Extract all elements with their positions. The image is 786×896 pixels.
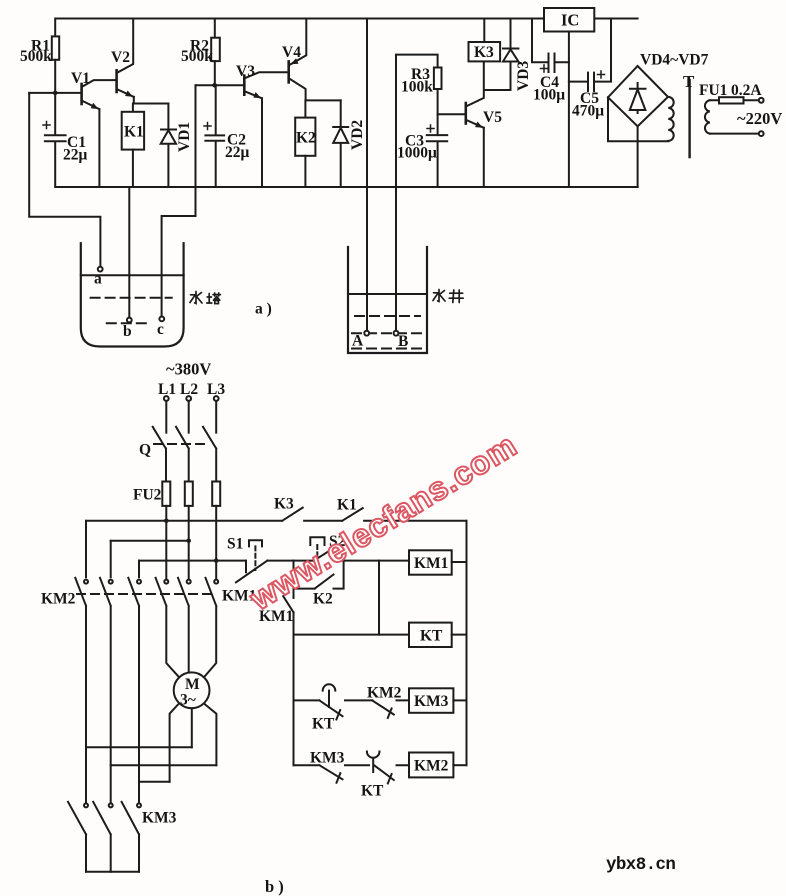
resistor R2 xyxy=(211,19,220,86)
label KM1 main xyxy=(222,588,256,605)
terminal L3 xyxy=(214,396,219,401)
label KM3 NC contact xyxy=(310,750,345,767)
switch Q pole 3 xyxy=(203,401,216,482)
wire KT branch xyxy=(378,561,380,635)
svg-text:3~: 3~ xyxy=(180,692,196,709)
contact K1 (feed line) xyxy=(342,508,466,521)
water tower tank xyxy=(81,243,184,346)
AC terminal top xyxy=(759,98,764,103)
transformer T primary winding xyxy=(668,97,674,141)
svg-text:KM3: KM3 xyxy=(142,810,177,827)
label R1 value xyxy=(20,38,52,66)
svg-text:500k: 500k xyxy=(181,48,213,65)
svg-text:V1: V1 xyxy=(71,70,90,87)
node 1 (R1/C1/V1 base) xyxy=(29,91,81,96)
transformer T core xyxy=(688,80,690,157)
wire secondary bottom xyxy=(710,133,759,135)
svg-text:L1: L1 xyxy=(158,381,176,398)
svg-text:FU1: FU1 xyxy=(699,82,727,99)
svg-text:KT: KT xyxy=(361,783,384,800)
label C3 value xyxy=(397,133,437,162)
electrode b xyxy=(127,318,132,323)
svg-text:100k: 100k xyxy=(401,79,433,96)
svg-text:b: b xyxy=(123,323,132,340)
svg-text:K2: K2 xyxy=(296,130,316,147)
label electrode B xyxy=(398,333,408,350)
pushbutton S1 (stop) xyxy=(236,540,267,582)
water well dashed level 2 xyxy=(352,332,423,334)
svg-text:VD2: VD2 xyxy=(349,120,366,150)
svg-text:0.2A: 0.2A xyxy=(731,82,762,99)
svg-text:K3: K3 xyxy=(274,496,294,513)
relay coil K3 xyxy=(469,19,501,62)
label V2 xyxy=(111,49,130,66)
transistor V3 xyxy=(244,72,288,187)
capacitor C3 xyxy=(427,125,447,187)
contactor KM1 main pole 2 xyxy=(178,578,191,673)
svg-text:L2: L2 xyxy=(180,381,198,398)
label FU1 0.2A xyxy=(699,82,762,99)
label b) xyxy=(265,877,284,896)
relay coil K2 xyxy=(295,100,315,187)
svg-text:KM3: KM3 xyxy=(414,693,449,710)
label KT contact row2 xyxy=(361,783,384,800)
label V4 xyxy=(282,44,301,61)
label KM2 main xyxy=(41,591,76,608)
right rail xyxy=(466,521,468,765)
svg-text:KM2: KM2 xyxy=(367,685,402,702)
contactor KM3 pole 2 xyxy=(93,802,113,872)
transformer T secondary winding xyxy=(705,100,710,133)
watermark ybx8.cn xyxy=(606,855,675,875)
terminal L1 xyxy=(164,396,169,401)
svg-text:B: B xyxy=(398,333,408,350)
svg-text:K1: K1 xyxy=(337,497,357,514)
svg-text:VD1: VD1 xyxy=(176,122,193,152)
contact KM2 NC (row KM3) xyxy=(372,700,409,718)
label VD4~VD7 xyxy=(640,52,709,69)
contact KT delayed NC (row KM2) xyxy=(367,752,409,784)
label a) xyxy=(255,301,272,318)
label S2 xyxy=(329,533,346,550)
water tower dashed level 2 xyxy=(107,322,146,324)
svg-text:KM2: KM2 xyxy=(41,591,76,608)
transistor V1 xyxy=(82,80,115,187)
bridge rectifier VD4~VD7 xyxy=(608,66,668,187)
contact KT delayed NC (row KM3) xyxy=(294,684,373,719)
wire well electrode B riser / R3 branch left xyxy=(396,55,438,331)
svg-text:FU2: FU2 xyxy=(133,487,162,504)
wire H1 motor to KM2 pole1 xyxy=(86,746,192,748)
svg-text:KT: KT xyxy=(420,628,443,645)
contact KM3 NC (row KM2) xyxy=(294,765,370,783)
water well dashed level 1 xyxy=(355,315,420,317)
contactor KM1 main pole 1 xyxy=(156,578,179,677)
switch Q linkage dashes xyxy=(154,443,209,445)
svg-text:b ): b ) xyxy=(265,877,284,896)
fuse FU2 pole 1 xyxy=(162,482,170,580)
watermark www.elecfans.com xyxy=(243,427,523,618)
wire top supply rail xyxy=(55,19,637,37)
label C5 value xyxy=(572,90,604,120)
svg-text:~220V: ~220V xyxy=(737,109,782,128)
resistor R1 xyxy=(52,36,59,93)
wire control feed line xyxy=(86,520,282,522)
label CJK 水井 (water well) xyxy=(433,290,463,303)
water tower water line xyxy=(81,274,184,276)
label KM1 self-hold xyxy=(259,608,293,625)
motor lead bottom-right xyxy=(205,704,217,765)
terminal L2 xyxy=(186,396,191,401)
fuse FU1 xyxy=(710,97,759,103)
svg-text:a ): a ) xyxy=(255,301,272,318)
label VD3 xyxy=(515,61,532,91)
electrode A xyxy=(364,331,369,336)
label K2 xyxy=(296,130,316,147)
label C1 value xyxy=(63,134,88,164)
label T xyxy=(683,72,695,91)
contactor KM2 main pole 3 xyxy=(128,561,141,804)
relay coil K1 xyxy=(122,104,144,188)
svg-text:500k: 500k xyxy=(20,48,52,65)
label KT coil xyxy=(420,628,443,645)
label L3 xyxy=(207,381,225,398)
label VD2 xyxy=(349,120,366,150)
capacitor C4 xyxy=(532,19,569,73)
svg-text:V2: V2 xyxy=(111,49,130,66)
relay coil KM1 xyxy=(409,550,467,574)
label KM1 coil xyxy=(414,555,448,572)
label KM3 coil xyxy=(414,693,449,710)
wire well electrode A riser xyxy=(366,19,368,331)
capacitor C2 xyxy=(204,85,224,187)
resistor R3 xyxy=(434,68,442,136)
label KT contact row1 xyxy=(312,716,335,733)
contactor KM3 pole 1 xyxy=(68,802,88,872)
label L1 xyxy=(158,381,176,398)
label electrode c xyxy=(157,321,164,338)
diode VD3 xyxy=(503,19,518,91)
svg-text:K3: K3 xyxy=(474,44,494,61)
motor lead bottom-center xyxy=(191,708,193,747)
wire V4 output row xyxy=(306,99,341,101)
wire K3/VD3 to V5 collector xyxy=(484,89,510,91)
wire V5 base xyxy=(438,113,466,115)
electrode c xyxy=(159,317,164,322)
label R3 value xyxy=(401,66,433,96)
contactor KM1 main pole 3 xyxy=(205,578,219,677)
IC box U1 xyxy=(544,8,594,187)
svg-text:ybx8.cn: ybx8.cn xyxy=(606,855,675,875)
svg-text:VD3: VD3 xyxy=(515,61,532,91)
svg-text:V4: V4 xyxy=(282,44,301,61)
svg-text:Q: Q xyxy=(139,442,151,459)
pushbutton S2 (start) xyxy=(310,537,409,560)
fuse FU2 pole 3 xyxy=(212,482,220,580)
label V5 xyxy=(483,109,502,126)
wire V2 emitter to VD1 xyxy=(134,103,169,105)
label Q xyxy=(139,442,151,459)
fuse FU2 pole 2 xyxy=(185,482,193,580)
label L2 xyxy=(180,381,198,398)
label KM2 coil xyxy=(414,758,449,775)
label C2 value xyxy=(225,132,250,162)
switch Q pole 1 xyxy=(153,401,167,482)
svg-text:S1: S1 xyxy=(227,536,243,553)
label K1 xyxy=(124,124,144,141)
contact KM1 self-hold (vertical) xyxy=(283,561,293,766)
svg-text:c: c xyxy=(157,321,164,338)
svg-text:KM1: KM1 xyxy=(414,555,448,572)
junction phase2 feed xyxy=(186,539,191,544)
contact K2 branch xyxy=(294,561,344,589)
label C4 value xyxy=(533,74,565,104)
label K2 contact xyxy=(313,591,333,608)
electrode a xyxy=(98,267,103,272)
label K3 coil xyxy=(474,44,494,61)
switch Q pole 2 xyxy=(176,401,189,482)
svg-text:V3: V3 xyxy=(236,63,255,80)
label motor M xyxy=(180,676,200,709)
relay coil KM2 xyxy=(409,753,467,778)
svg-text:L3: L3 xyxy=(207,381,225,398)
wire H2 motor to KM2 pole2 xyxy=(111,764,217,766)
junction phase1 feed xyxy=(164,519,169,524)
label electrode b xyxy=(123,323,132,340)
svg-text:A: A xyxy=(352,333,364,350)
label KM2 NC contact xyxy=(367,685,402,702)
wire KM2 pole3 / control branch feed xyxy=(139,560,246,562)
svg-text:470μ: 470μ xyxy=(572,103,604,120)
svg-text:KM2: KM2 xyxy=(414,758,449,775)
relay coil KT xyxy=(409,623,467,647)
svg-text:22μ: 22μ xyxy=(63,147,88,164)
svg-text:M: M xyxy=(185,676,200,693)
contactor KM2 main pole 1 xyxy=(75,521,88,804)
wire KM2 pole2 feed xyxy=(111,540,189,542)
diode VD1 xyxy=(161,104,176,188)
svg-text:100μ: 100μ xyxy=(533,87,565,104)
label ~220V xyxy=(737,109,782,128)
label R2 value xyxy=(181,38,213,66)
wire S1 to S2 xyxy=(267,560,314,562)
label CJK 水塔 (water tower) xyxy=(190,292,220,304)
transistor V4 xyxy=(289,19,307,101)
svg-text:K1: K1 xyxy=(124,124,144,141)
wire KM3 star point xyxy=(86,871,139,873)
capacitor C1 xyxy=(43,93,66,187)
water well dashed bottom xyxy=(352,348,423,350)
svg-text:1000μ: 1000μ xyxy=(397,145,437,162)
wire bottom ground bus xyxy=(55,186,637,188)
transistor V2 xyxy=(117,19,134,104)
wire left rail to tower electrode a xyxy=(29,93,100,267)
motor M 3~ xyxy=(174,672,210,708)
svg-text:K2: K2 xyxy=(313,591,333,608)
label VD1 xyxy=(176,122,193,152)
svg-text:KT: KT xyxy=(312,716,335,733)
svg-text:KM3: KM3 xyxy=(310,750,345,767)
water well water line xyxy=(348,293,427,295)
label electrode A xyxy=(352,333,364,350)
wire H3 motor to KM2 pole3 xyxy=(139,781,170,783)
AC terminal bottom xyxy=(759,131,764,136)
svg-text:VD4~VD7: VD4~VD7 xyxy=(640,52,709,69)
main contacts linkage dashes xyxy=(77,593,211,595)
capacitor C5 xyxy=(569,19,611,92)
contactor KM3 pole 3 xyxy=(122,802,141,872)
svg-text:IC: IC xyxy=(561,11,579,30)
motor lead bottom-left xyxy=(170,704,179,782)
label electrode a xyxy=(94,271,102,288)
electrode B xyxy=(394,331,399,336)
contactor KM2 main pole 2 xyxy=(100,541,113,804)
relay coil KM3 xyxy=(409,688,467,713)
label K3 contact xyxy=(274,496,294,513)
diode VD2 xyxy=(333,100,348,187)
svg-text:T: T xyxy=(683,72,695,91)
label K1 contact xyxy=(337,497,357,514)
label KM3 bottom xyxy=(142,810,177,827)
svg-text:V5: V5 xyxy=(483,109,502,126)
svg-text:22μ: 22μ xyxy=(225,144,250,161)
label ~380V xyxy=(166,360,211,379)
transistor V5 xyxy=(466,61,484,187)
label V3 xyxy=(236,63,255,80)
svg-text:~380V: ~380V xyxy=(166,360,211,379)
contact K3 (feed line) xyxy=(282,508,342,521)
label V1 xyxy=(71,70,90,87)
junction phase3 feed xyxy=(214,558,219,563)
label S1 xyxy=(227,536,243,553)
wire tower electrode b xyxy=(128,187,130,318)
water tower dashed level 1 xyxy=(91,297,172,299)
water well tank xyxy=(348,247,427,353)
wire KT row xyxy=(294,634,410,636)
svg-text:a: a xyxy=(94,271,102,288)
wire node 2 to tower electrode c xyxy=(162,85,196,316)
label FU2 xyxy=(133,487,162,504)
node 2 (R2/C2/V3 base) xyxy=(196,83,245,88)
label IC xyxy=(561,11,579,30)
